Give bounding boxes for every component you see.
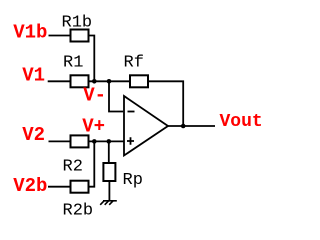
junction dot	[92, 139, 97, 144]
svg-text:R1b: R1b	[62, 13, 93, 32]
wire	[49, 35, 71, 37]
wire	[108, 141, 110, 163]
svg-text:Vout: Vout	[220, 112, 263, 132]
svg-text:Rf: Rf	[124, 53, 144, 72]
wire	[49, 140, 71, 142]
svg-text:V1: V1	[22, 64, 45, 86]
svg-text:V2b: V2b	[13, 175, 47, 197]
op-amp U1	[124, 96, 168, 156]
ground	[100, 201, 117, 205]
resistor R2b	[71, 181, 89, 193]
svg-text:V+: V+	[82, 116, 105, 138]
svg-text:R1: R1	[63, 53, 83, 72]
svg-text:R2b: R2b	[63, 202, 94, 221]
resistor Rf	[130, 75, 148, 87]
svg-text:R2: R2	[63, 158, 83, 177]
svg-text:V1b: V1b	[13, 22, 47, 44]
resistor Rp	[103, 163, 115, 181]
resistor R1b	[71, 30, 89, 42]
junction dot	[107, 79, 112, 84]
wire	[89, 140, 125, 142]
wire	[148, 81, 183, 126]
resistor R1	[71, 75, 89, 87]
junction dot	[181, 124, 186, 129]
svg-text:Rp: Rp	[123, 171, 143, 190]
wire	[89, 36, 95, 82]
wire	[48, 80, 71, 82]
wire	[89, 80, 131, 82]
svg-text:V2: V2	[22, 124, 45, 146]
svg-text:V-: V-	[83, 85, 106, 107]
junction dot	[92, 79, 97, 84]
wire	[90, 141, 95, 186]
wire	[109, 81, 123, 111]
wire	[108, 181, 110, 201]
wire	[168, 125, 215, 127]
junction dot	[107, 139, 112, 144]
resistor R2	[71, 135, 89, 147]
wire	[48, 186, 71, 188]
